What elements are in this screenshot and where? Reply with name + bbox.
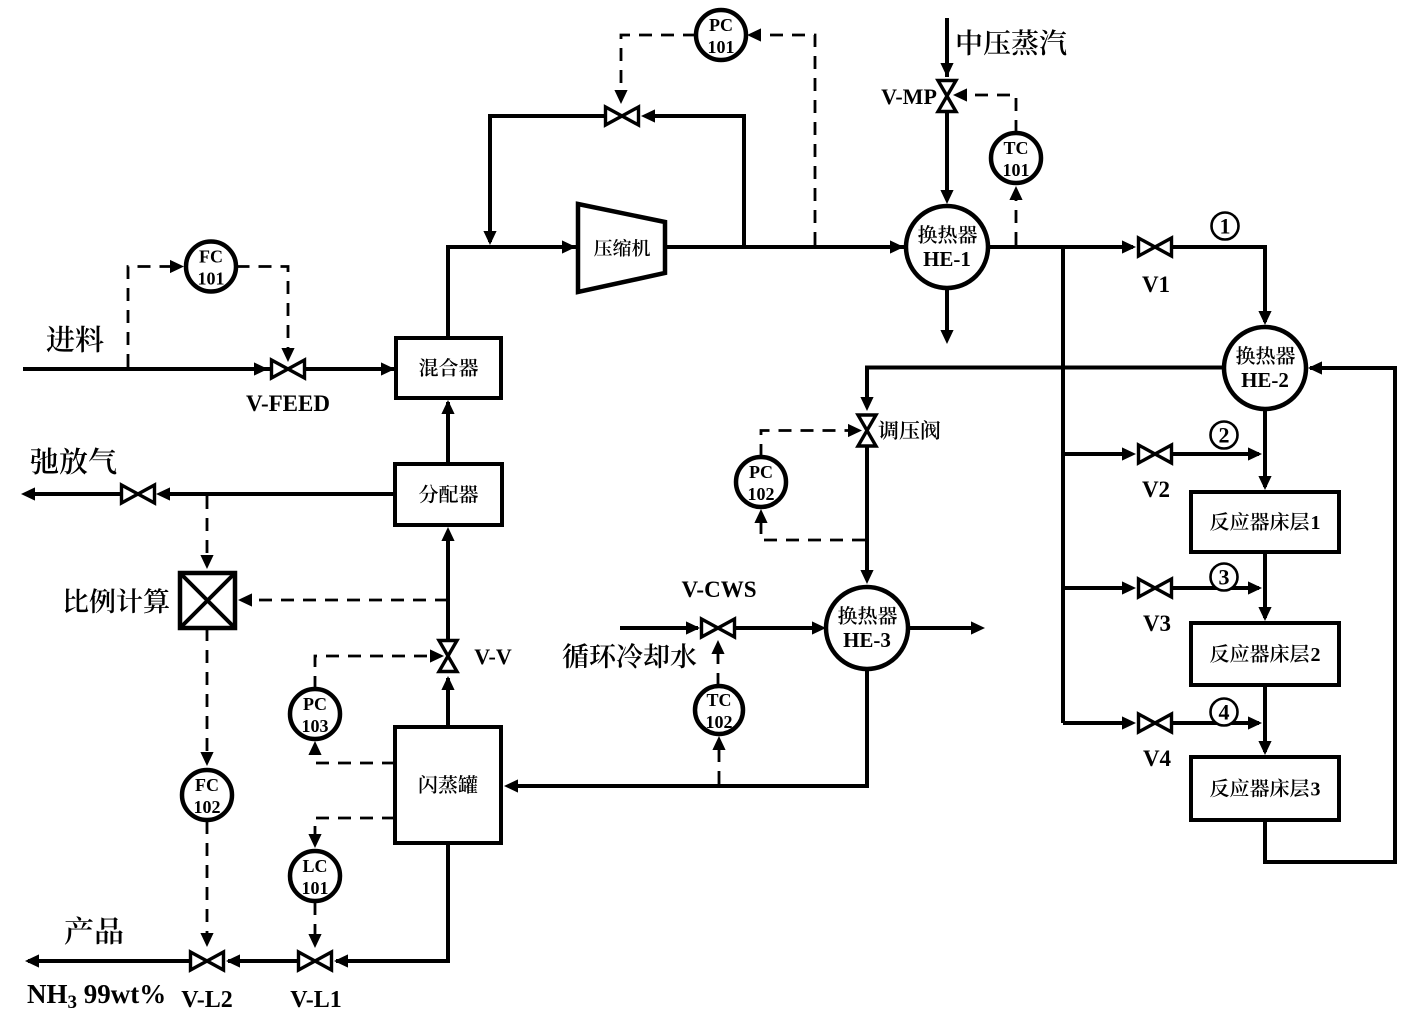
signal wire tap to TC102 [712, 736, 725, 784]
svg-text:HE-3: HE-3 [843, 628, 891, 652]
wire steam V-MP to HE-1 [945, 113, 949, 200]
signal wire recycle tap to ratio box [238, 593, 448, 606]
controller PC103 [290, 689, 340, 739]
arrow steam down [940, 63, 953, 77]
reactor bed 2 反应器床层2 [1191, 623, 1339, 685]
svg-text:NH3 99wt%: NH3 99wt% [27, 979, 166, 1013]
wire steam inlet line [945, 18, 949, 77]
valve V1 [1139, 238, 1172, 256]
wire bypass header vertical [1061, 247, 1065, 723]
arrow product out [25, 954, 39, 967]
signal wire FC102 to V-L2 [200, 821, 213, 947]
wire HE-3 outlet to flash tank [509, 669, 867, 786]
arrow cooling water out [971, 621, 985, 634]
signal wire FC101 to V-FEED valve [237, 267, 295, 363]
svg-text:102: 102 [194, 797, 221, 817]
reactor bed 3 反应器床层3 [1191, 757, 1339, 820]
signal wire flash tank tap to PC103 [308, 741, 395, 763]
stream tag 3 [1211, 564, 1238, 591]
mixer 混合器 [396, 338, 501, 398]
arrow into HE-2 top [1258, 311, 1271, 325]
svg-text:1: 1 [1311, 512, 1321, 534]
label 比例计算 [65, 588, 169, 613]
svg-text:FC: FC [199, 247, 223, 267]
arrow into distributor bottom [441, 527, 454, 541]
signal wire ratio box to FC102 [200, 628, 213, 766]
valve V-V [439, 641, 457, 672]
label NH3 99wt% [27, 979, 166, 1013]
controller LC101 [290, 851, 340, 901]
valve V-FEED [272, 360, 305, 378]
wire recycle branch up from discharge [650, 116, 744, 245]
svg-text:1: 1 [1220, 214, 1231, 239]
arrow into V2 [1122, 447, 1136, 460]
arrow steam into HE-1 [940, 190, 953, 204]
svg-text:101: 101 [198, 269, 225, 289]
heat exchanger HE-3 [826, 587, 908, 669]
wire V4 to bed3 feed [1173, 721, 1260, 725]
controller PC102 [736, 457, 786, 507]
wire V2 to bed1 feed [1173, 452, 1260, 456]
svg-text:2: 2 [1219, 423, 1230, 448]
wire feed line 进料 to V-FEED to mixer [23, 367, 271, 371]
svg-text:101: 101 [302, 878, 329, 898]
valve V-MP [938, 81, 956, 112]
arrow into purge valve [156, 487, 170, 500]
arrow into HE-3 top [860, 570, 873, 584]
svg-text:LC: LC [302, 856, 327, 876]
arrow into bed1 [1258, 476, 1271, 490]
arrow into V-V [441, 676, 454, 690]
heat exchanger HE-2 [1224, 327, 1306, 409]
signal wire PC102 to pressure valve [761, 424, 862, 457]
wire feed line V-FEED to mixer [306, 367, 397, 371]
wire cooling water inlet [620, 626, 698, 630]
label V-MP [881, 84, 937, 109]
svg-text:TC: TC [706, 690, 731, 710]
arrow into pressure valve [860, 397, 873, 411]
wire product line to exit [28, 959, 190, 963]
wire product line V-L1 to V-L2 [228, 959, 298, 963]
recycle control valve [606, 107, 639, 125]
wire compressor outlet to HE-1 [665, 245, 904, 249]
svg-text:TC: TC [1003, 138, 1028, 158]
signal wire discharge tap to PC101 [747, 28, 815, 245]
arrow into V4 [1122, 716, 1136, 729]
valve V-L1 [299, 952, 332, 970]
signal wire TC101 to V-MP valve [953, 88, 1016, 133]
svg-text:V4: V4 [1143, 746, 1172, 771]
label V3 [1143, 611, 1171, 636]
label 产品 (product) [65, 916, 123, 944]
label 弛放气 (purge gas) [31, 447, 117, 474]
wire HE-2 to reactor bed 1 [1263, 409, 1267, 487]
reactor bed 1 反应器床层1 [1191, 492, 1339, 552]
stream tag 4 [1211, 699, 1238, 726]
flash tank 闪蒸罐 [395, 727, 501, 843]
arrow into compressor [562, 240, 576, 253]
wire V3 to bed2 feed [1173, 586, 1260, 590]
compressor 压缩机 [578, 204, 665, 292]
wire purge line to exit [28, 492, 121, 496]
valve V3 [1139, 579, 1172, 597]
valve V4 [1139, 714, 1172, 732]
heat exchanger HE-1 [906, 206, 988, 288]
svg-text:PC: PC [303, 694, 327, 714]
wire V4 branch line [1063, 721, 1131, 725]
label 调压阀 [879, 420, 940, 440]
label 中压蒸汽 (MP steam) [958, 29, 1067, 55]
label V2 [1142, 477, 1170, 502]
svg-text:PC: PC [749, 462, 773, 482]
signal wire LC101 to V-L1 [308, 902, 321, 948]
wire HE-3 cooling water outlet [908, 626, 971, 630]
controller TC102 [695, 686, 743, 734]
svg-text:103: 103 [302, 716, 329, 736]
svg-text:V1: V1 [1142, 272, 1170, 297]
label V-CWS [682, 577, 757, 602]
valve V-CWS [702, 619, 735, 637]
svg-text:V2: V2 [1142, 477, 1170, 502]
svg-text:2: 2 [1311, 644, 1321, 666]
controller PC101 [696, 10, 746, 60]
arrow condensate down [940, 330, 953, 344]
svg-text:PC: PC [709, 15, 733, 35]
label V-FEED [246, 391, 330, 416]
wire flash tank vapor to V-V [446, 678, 450, 727]
signal wire PC101 to recycle valve [614, 35, 696, 104]
arrow V2 joins bed1 feed [1248, 447, 1262, 460]
controller TC101 [991, 133, 1041, 183]
svg-text:3: 3 [1311, 779, 1321, 801]
svg-text:102: 102 [748, 484, 775, 504]
signal wire feed tap to FC101 [128, 260, 184, 367]
arrow into HE-3 left [812, 621, 826, 634]
arrow into V-L2 [226, 954, 240, 967]
signal wire tank level tap to LC101 [308, 818, 395, 848]
wire V3 branch line [1063, 586, 1131, 590]
stream tag 1 [1212, 213, 1239, 240]
signal wire purge tap to ratio box [200, 496, 213, 569]
wire mixer outlet up to compressor line [448, 247, 576, 338]
wire V2 branch line [1063, 452, 1131, 456]
arrow into bed3 [1258, 741, 1271, 755]
wire bed2 outlet to bed3 [1263, 685, 1267, 752]
arrow into mixer [381, 362, 395, 375]
svg-text:HE-1: HE-1 [923, 247, 971, 271]
svg-text:V-FEED: V-FEED [246, 391, 330, 416]
svg-text:101: 101 [708, 37, 735, 57]
svg-text:V3: V3 [1143, 611, 1171, 636]
stream tag 2 [1211, 422, 1238, 449]
label 进料 (feed) [47, 326, 104, 353]
wire recycle valve to suction [490, 116, 605, 242]
arrow into HE-2 right [1308, 361, 1322, 374]
wire V-CWS to HE-3 [736, 626, 823, 630]
wire HE-1 outlet to V1 [988, 245, 1133, 249]
arrow into bed2 [1258, 607, 1271, 621]
wire V-V to distributor [446, 531, 450, 639]
svg-text:V-V: V-V [474, 644, 512, 669]
wire bed1 outlet to bed2 [1263, 552, 1267, 618]
arrow feed into V-FEED [254, 362, 268, 375]
controller FC102 [182, 770, 232, 820]
svg-text:V-L1: V-L1 [290, 987, 342, 1013]
svg-text:V-CWS: V-CWS [682, 577, 757, 602]
label V-L1 [290, 987, 342, 1013]
wire distributor to mixer [446, 402, 450, 462]
arrow V4 joins bed3 feed [1248, 716, 1262, 729]
svg-text:V-L2: V-L2 [181, 987, 233, 1013]
wire HE-1 condensate outlet [945, 288, 949, 331]
wire purge line distributor to V-PURGE [160, 492, 395, 496]
label V1 [1142, 272, 1170, 297]
arrow into V-CWS [686, 621, 700, 634]
arrow into recycle valve [641, 109, 655, 122]
label 循环冷却水 (cooling water) [563, 643, 697, 668]
svg-text:3: 3 [1219, 565, 1230, 590]
valve V-L2 [191, 952, 224, 970]
arrow into V3 [1122, 581, 1136, 594]
arrow into HE-1 [890, 240, 904, 253]
svg-text:4: 4 [1219, 700, 1230, 725]
arrow into V-L1 [334, 954, 348, 967]
purge valve [122, 485, 155, 503]
signal wire HE-1 outlet tap to TC101 [1009, 186, 1022, 245]
svg-text:V-MP: V-MP [881, 84, 937, 109]
svg-text:HE-2: HE-2 [1241, 368, 1289, 392]
signal wire TC102 to V-CWS [711, 640, 724, 686]
pressure regulating valve 调压阀 [858, 415, 876, 446]
arrow recycle joins suction line [483, 231, 496, 245]
svg-text:102: 102 [706, 712, 733, 732]
wire flash tank liquid outlet [336, 843, 448, 961]
svg-text:101: 101 [1003, 160, 1030, 180]
arrow into mixer bottom [441, 400, 454, 414]
valve V2 [1139, 445, 1172, 463]
wire bed3 outlet recycle to HE-2 [1265, 368, 1395, 862]
wire pressure valve to HE-3 [865, 447, 869, 580]
label V4 [1143, 746, 1172, 771]
ratio calculator 比例计算 [180, 573, 235, 628]
arrow purge gas out [21, 487, 35, 500]
signal wire PC103 to V-V valve [315, 649, 444, 689]
svg-text:FC: FC [195, 775, 219, 795]
wire V1 to HE-2 down [1173, 247, 1266, 322]
arrow V3 joins bed2 feed [1248, 581, 1262, 594]
arrow into flash tank [504, 779, 518, 792]
arrow into V1 [1122, 240, 1136, 253]
label V-L2 [181, 987, 233, 1013]
signal wire tap to PC102 [754, 509, 865, 540]
controller FC101 [186, 242, 236, 292]
wire HE-2 outlet to pressure valve [867, 368, 1224, 408]
distributor 分配器 [395, 464, 502, 525]
label V-V [474, 644, 512, 669]
